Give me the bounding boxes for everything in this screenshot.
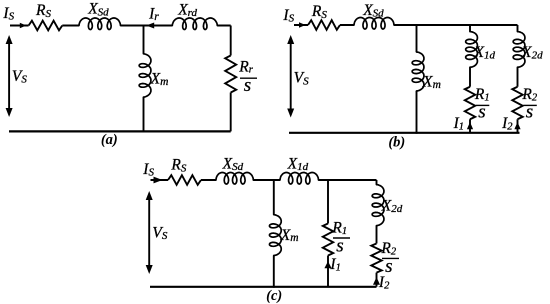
svg-text:Ir: Ir <box>148 5 159 22</box>
svg-text:VS: VS <box>294 70 309 88</box>
svg-text:Xm: Xm <box>422 73 441 91</box>
svg-text:XSd: XSd <box>87 1 109 19</box>
svg-text:s: s <box>336 235 343 256</box>
svg-text:VS: VS <box>12 68 27 86</box>
svg-text:R1: R1 <box>331 220 347 237</box>
svg-text:(b): (b) <box>388 135 405 151</box>
svg-text:I1: I1 <box>329 256 340 274</box>
svg-text:IS: IS <box>2 5 14 23</box>
svg-text:RS: RS <box>35 2 51 20</box>
svg-text:IS: IS <box>142 161 154 179</box>
svg-text:XSd: XSd <box>222 156 244 174</box>
svg-text:Rr: Rr <box>238 58 253 75</box>
svg-text:(c): (c) <box>266 288 282 304</box>
svg-text:s: s <box>385 256 392 277</box>
svg-text:X1d: X1d <box>287 156 309 173</box>
svg-text:XSd: XSd <box>362 2 384 20</box>
svg-text:s: s <box>526 101 533 122</box>
svg-text:X1d: X1d <box>473 44 495 61</box>
svg-text:Xm: Xm <box>150 71 169 88</box>
svg-text:RS: RS <box>170 157 186 175</box>
svg-text:X2d: X2d <box>381 198 403 215</box>
svg-text:VS: VS <box>152 224 167 242</box>
svg-text:RS: RS <box>311 3 327 21</box>
svg-text:s: s <box>478 101 485 122</box>
svg-text:(a): (a) <box>101 132 118 148</box>
svg-text:s: s <box>244 75 251 96</box>
svg-text:X2d: X2d <box>521 44 543 61</box>
svg-text:I2: I2 <box>501 115 513 133</box>
svg-text:Xrd: Xrd <box>177 2 197 19</box>
svg-text:IS: IS <box>282 7 294 25</box>
svg-text:Xm: Xm <box>280 227 299 244</box>
svg-text:I1: I1 <box>453 115 464 133</box>
